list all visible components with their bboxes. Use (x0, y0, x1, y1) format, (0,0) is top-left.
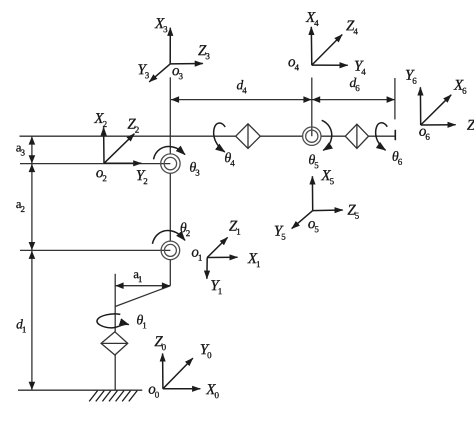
rotation arc theta1 around base column (97, 314, 129, 328)
wire: upper arm line y=136 left segment (20, 135, 236, 137)
wire: arm line between joint6 diamond and end bar (369, 135, 396, 137)
frame 4 axes (311, 27, 347, 65)
dimension a3 vertical arrow (29, 136, 36, 163)
wire: joint5 axis line from O4 down to circle center (311, 78, 313, 137)
svg-text:Z: Z (467, 118, 474, 134)
wire: arm line between joint5 circle and joint6 diamond (321, 135, 345, 137)
frame 6 axes (420, 87, 455, 125)
rotation arc theta3 (154, 147, 186, 160)
wire: main column joint3 to joint2 (169, 173, 171, 241)
joint J5 double circle (303, 127, 321, 145)
ground line (18, 389, 142, 391)
joint J4 diamond (236, 124, 261, 149)
wire: base column lower segment to ground (114, 355, 116, 390)
wire: main column upper segment (O3 down to joint3) (169, 77, 171, 154)
wire: main column joint2 to a1 level (169, 260, 171, 286)
frame 0 axes (163, 354, 201, 389)
wire: d6 right extension line (394, 78, 396, 119)
wire: link line y=250.4 into joint2 center (20, 249, 170, 251)
dimension d1 vertical arrow (29, 251, 36, 390)
wire: arm line between joint4 diamond and joint5 circle (260, 135, 302, 137)
wire: slanted link (115, 286, 170, 307)
wire: lower link line y=163.6 into joint3 center (20, 163, 170, 165)
dimension d6 line with arrows (312, 96, 395, 103)
frame 5 axes (292, 176, 343, 228)
dimension a2 vertical arrow (29, 164, 36, 250)
ground hatching (89, 391, 137, 402)
rotation arc theta6 (376, 123, 388, 150)
rotation arc theta4 (214, 123, 226, 152)
dimension d4 line with arrows (171, 96, 312, 103)
joint J2 double circle (161, 241, 180, 260)
frame 1 axes (207, 237, 238, 278)
joint J6 diamond (345, 124, 368, 148)
dimension a1 line with arrows (115, 282, 170, 289)
joint J3 double circle (161, 154, 180, 173)
end-effector flange bar (394, 130, 396, 140)
rotation arc theta5 (322, 120, 332, 150)
wire: base column upper segment (114, 274, 116, 332)
frame 3 axes (149, 28, 203, 82)
joint J1 diamond (base revolute) (101, 332, 128, 355)
frame 2 axes (104, 127, 142, 163)
rotation arc theta2 (152, 231, 185, 244)
